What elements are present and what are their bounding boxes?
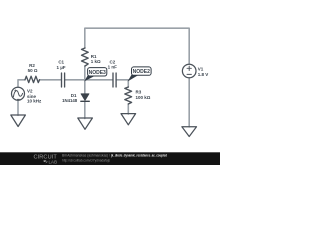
capacitor C1 plates <box>62 73 65 87</box>
svg-text:1N4148: 1N4148 <box>62 98 78 103</box>
svg-text:V2: V2 <box>27 88 33 93</box>
ground for V1 <box>182 127 197 137</box>
V1 minus sign <box>187 73 191 75</box>
svg-text:50 Ω: 50 Ω <box>28 68 38 73</box>
wire R2 to C1 <box>40 79 62 81</box>
svg-text:C1: C1 <box>58 60 64 65</box>
resistor R3 zigzag <box>125 87 132 104</box>
wire R1 lead to node3 <box>84 66 86 80</box>
label R2 value <box>27 54 208 103</box>
wire V2 riser to R2 <box>18 80 25 87</box>
source V2 circle <box>12 87 25 100</box>
wire node3 to D1 <box>84 80 86 94</box>
ground for V2 <box>11 115 26 127</box>
capacitor C2 plates <box>113 73 116 87</box>
svg-text:V1: V1 <box>198 67 204 72</box>
wire C1 to node3 to C2 <box>65 79 113 81</box>
V2 sine symbol <box>13 91 22 97</box>
svg-text:1 nF: 1 nF <box>108 64 118 69</box>
svg-text:10 kHz: 10 kHz <box>27 99 42 104</box>
V1 plus sign <box>187 66 191 70</box>
svg-text:Bill Ashmanskas (ashmanskas) /: Bill Ashmanskas (ashmanskas) / jk_diode_… <box>62 153 167 157</box>
resistor R2 zigzag <box>25 76 40 82</box>
svg-text:NODE2: NODE2 <box>133 69 150 75</box>
svg-text:R3: R3 <box>136 90 142 95</box>
wire top loop R1 to V1 <box>85 28 189 64</box>
ground for D1 <box>78 118 93 129</box>
wire V1 bottom to ground <box>188 78 190 127</box>
svg-text:100 kΩ: 100 kΩ <box>136 95 151 100</box>
wire R3 to ground <box>127 104 129 114</box>
watermark logo CIRCUIT LAB <box>34 155 58 165</box>
svg-text:1 µF: 1 µF <box>56 65 65 70</box>
wire D1 cathode to ground <box>84 102 86 119</box>
node flag NODE3 <box>85 68 107 81</box>
svg-text:1.8 V: 1.8 V <box>198 72 209 77</box>
source V1 circle <box>182 64 196 78</box>
resistor R1 zigzag <box>82 48 89 66</box>
wire node2 to R3 <box>127 80 129 87</box>
node flag NODE2 <box>128 67 151 81</box>
svg-text:NODE3: NODE3 <box>89 70 106 76</box>
svg-text:1 kΩ: 1 kΩ <box>91 59 101 64</box>
wire C2 to node2 <box>116 79 129 81</box>
wire V2 bottom to ground <box>17 100 19 115</box>
svg-text:LAB: LAB <box>49 159 58 164</box>
ground for R3 <box>121 114 136 125</box>
watermark bar <box>0 152 220 165</box>
diode D1 <box>81 94 89 101</box>
watermark text line 1 <box>62 153 167 162</box>
svg-text:http://circuitlab.com/c/7ydnad: http://circuitlab.com/c/7ydnadafajs <box>62 159 110 163</box>
